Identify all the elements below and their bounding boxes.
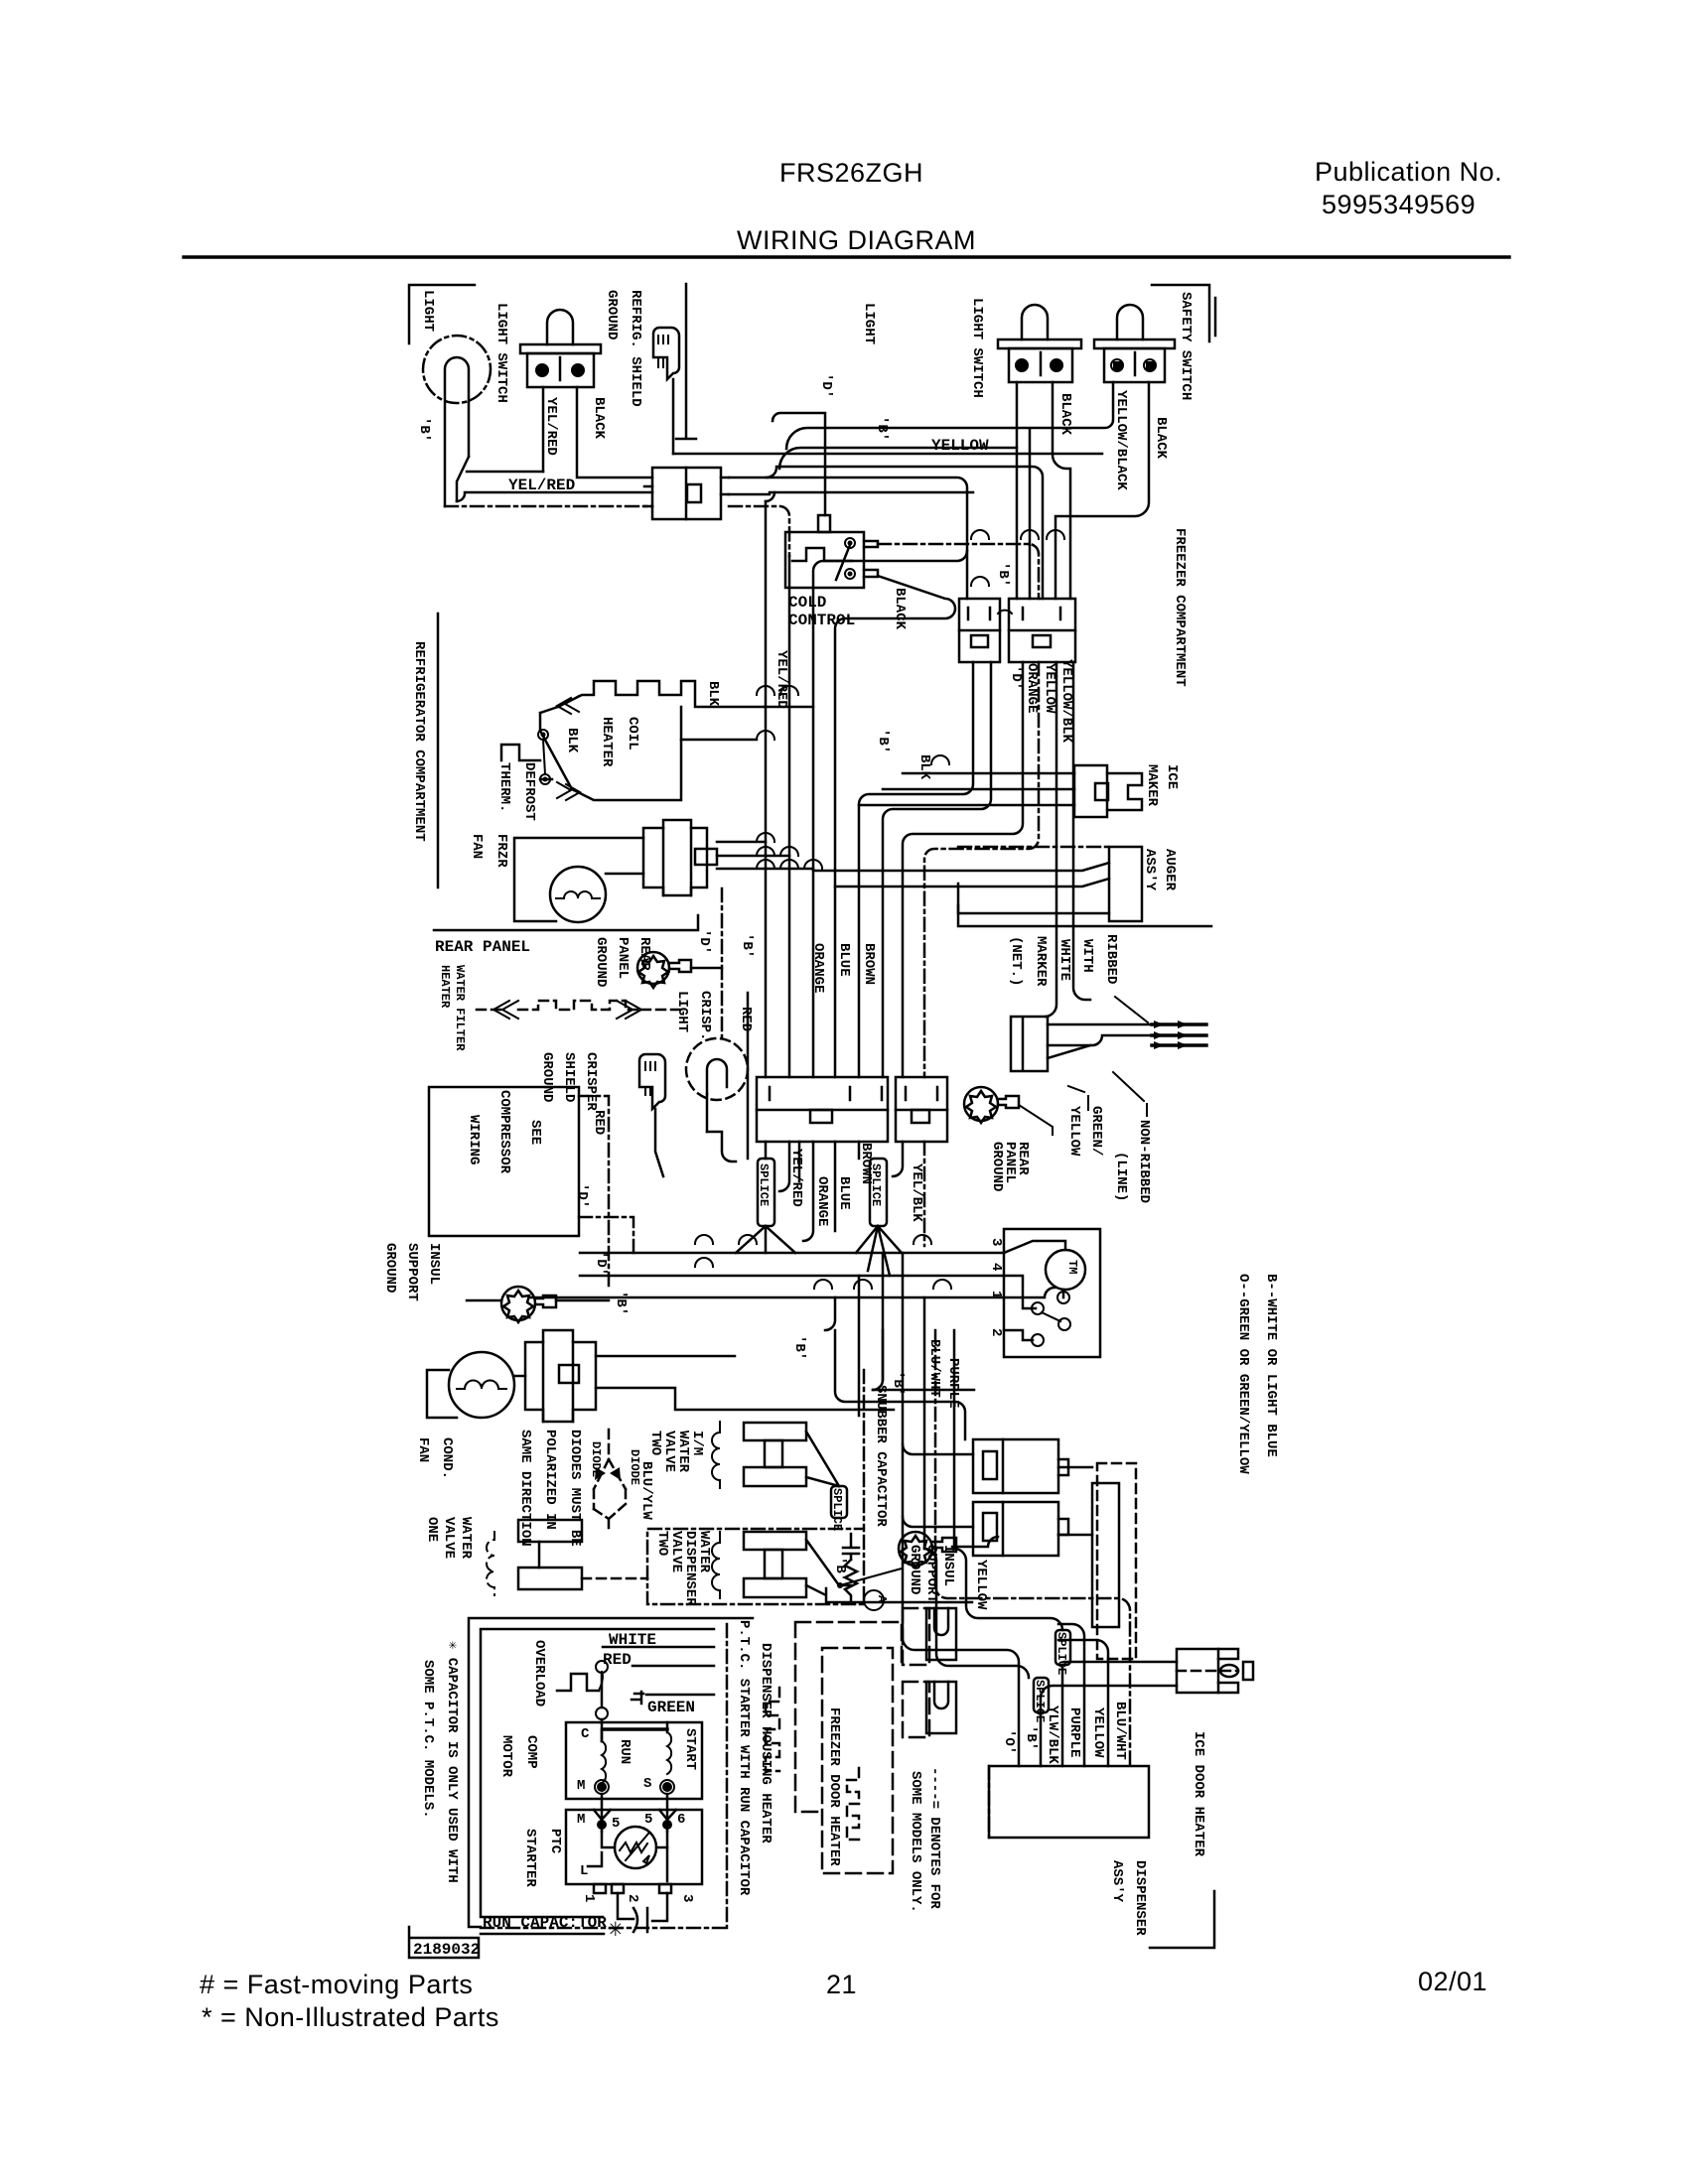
svg-text:FRS26ZGH: FRS26ZGH [779, 158, 923, 188]
coil heater element [558, 681, 765, 707]
svg-text:TWO: TWO [654, 1531, 670, 1556]
rear panel separator [434, 915, 698, 930]
svg-text:WITH: WITH [1079, 939, 1095, 973]
svg-text:'B': 'B' [1023, 1725, 1039, 1750]
svg-text:DIODES MUST BE: DIODES MUST BE [567, 1430, 583, 1547]
refrig shield ground clip [653, 328, 679, 379]
auger wires [958, 846, 1109, 849]
contact triangles [594, 1810, 611, 1820]
defrost thermostat [501, 745, 540, 760]
wire yellow [779, 448, 1017, 469]
svg-text:SEE: SEE [527, 1120, 543, 1145]
svg-text:2189032: 2189032 [413, 1941, 480, 1959]
ribbed leader [1115, 997, 1148, 1023]
svg-text:RUN: RUN [617, 1739, 633, 1764]
insul support ground right washer [899, 1532, 932, 1566]
compressor wiring reference box [429, 1087, 579, 1236]
K1 to splice wires [736, 1142, 795, 1253]
cold control box [785, 532, 864, 588]
node D dashed vertical [721, 888, 724, 1040]
dispenser housing heater element [766, 1688, 779, 1771]
main wire bundle verticals [765, 501, 768, 1077]
compressor section outer box [469, 1618, 753, 1927]
wire node B dash-dot [445, 506, 789, 556]
node D wire [773, 413, 825, 515]
cold control wires [878, 544, 1039, 599]
svg-text:DISPENSER: DISPENSER [1132, 1860, 1148, 1936]
freezer fan motor [550, 867, 606, 922]
svg-text:'D': 'D' [574, 1183, 590, 1208]
part number box 2189032 [409, 1927, 479, 1958]
svg-text:DISPENSER HOUSING HEATER: DISPENSER HOUSING HEATER [758, 1643, 774, 1843]
power cord connector [1011, 1017, 1048, 1071]
svg-text:POLARIZED IN: POLARIZED IN [542, 1430, 558, 1530]
power cord lines [1048, 1024, 1152, 1045]
svg-text:'B': 'B' [739, 933, 755, 958]
tall dashed connector M1 [1097, 1463, 1136, 1659]
crisper shield ground clip [639, 1054, 665, 1109]
label A circled [864, 1590, 884, 1610]
red bus vertical [747, 993, 750, 1159]
cond fan connector wires [596, 1356, 894, 1410]
IM water valve two body [744, 1423, 806, 1440]
wire hops near connectors [971, 530, 1064, 614]
rear panel ground washer right [964, 1087, 998, 1121]
corner bracket refrigerator light [409, 285, 475, 343]
some-models connector dashed outlines [903, 1608, 929, 1737]
green/yellow leader [1068, 1086, 1088, 1110]
ice door heater connector [1041, 1662, 1177, 1712]
svg-text:BLACK: BLACK [1057, 393, 1073, 436]
svg-text:B--WHITE OR LIGHT BLUE: B--WHITE OR LIGHT BLUE [1263, 1274, 1279, 1457]
svg-text:2: 2 [625, 1894, 640, 1902]
timer box [1004, 1229, 1100, 1357]
svg-text:YELLOW: YELLOW [1042, 663, 1057, 714]
rear panel ground washer left [637, 952, 669, 984]
svg-text:YELLOW: YELLOW [973, 1560, 989, 1610]
svg-text:S: S [643, 1776, 651, 1792]
svg-text:SAFETY SWITCH: SAFETY SWITCH [1178, 292, 1194, 400]
dispenser valve two body [744, 1532, 806, 1550]
svg-text:5: 5 [612, 1816, 620, 1832]
svg-text:ORANGE: ORANGE [1024, 663, 1040, 713]
svg-text:ASS'Y: ASS'Y [1109, 1860, 1125, 1903]
svg-text:BLU/YLW: BLU/YLW [638, 1461, 654, 1520]
svg-text:BROWN: BROWN [861, 943, 877, 985]
timer motor TM [1046, 1250, 1085, 1290]
svg-text:1: 1 [581, 1894, 597, 1902]
svg-text:SNUBBER CAPACITOR: SNUBBER CAPACITOR [873, 1385, 889, 1527]
svg-text:COLD: COLD [788, 594, 826, 612]
svg-text:DIODE: DIODE [589, 1441, 603, 1477]
bundle boundary wire [826, 1588, 972, 1602]
svg-text:'B': 'B' [875, 729, 891, 753]
svg-text:BLK: BLK [705, 681, 721, 707]
svg-text:ORANGE: ORANGE [814, 1176, 830, 1226]
svg-text:BLACK: BLACK [591, 397, 607, 440]
diode pair dashed [594, 1430, 626, 1509]
svg-text:6: 6 [677, 1812, 685, 1828]
wires down to valves [825, 1253, 883, 1416]
svg-text:YELLOW: YELLOW [1066, 1106, 1082, 1157]
svg-text:SOME P.T.C. MODELS.: SOME P.T.C. MODELS. [420, 1660, 436, 1819]
dispenser housing heater dashed box [795, 1622, 902, 1812]
refrig ground stub [676, 284, 696, 439]
svg-text:START: START [682, 1728, 698, 1770]
refrigerator compartment boundary [437, 614, 440, 887]
dispenser assy bracket [1150, 1891, 1214, 1948]
svg-text:ORANGE: ORANGE [810, 943, 826, 993]
svg-text:'B': 'B' [791, 1335, 807, 1360]
svg-text:RED: RED [591, 1110, 607, 1135]
svg-text:----= DENOTES FOR: ----= DENOTES FOR [926, 1767, 942, 1909]
svg-text:RUN CAPAC:TOR: RUN CAPAC:TOR [483, 1914, 607, 1932]
svg-text:LIGHT: LIGHT [861, 303, 877, 344]
bus horizontals to timer [580, 1252, 1004, 1255]
svg-text:REAR PANEL: REAR PANEL [435, 938, 530, 956]
ice maker connector [1074, 765, 1142, 817]
non-ribbed leader [1113, 1072, 1147, 1116]
svg-text:'B': 'B' [890, 1371, 906, 1396]
svg-text:O--GREEN OR GREEN/YELLOW: O--GREEN OR GREEN/YELLOW [1235, 1274, 1251, 1474]
net separator line [958, 905, 1211, 926]
svg-text:FREEZER COMPARTMENT: FREEZER COMPARTMENT [1172, 528, 1188, 687]
svg-text:P.T.C. STARTER WITH RUN CAPACI: P.T.C. STARTER WITH RUN CAPACITOR [736, 1620, 752, 1896]
insul support ground washer left [467, 1299, 501, 1302]
J1 output wires [859, 662, 973, 1077]
red wire [633, 1665, 714, 1668]
svg-text:WIRING DIAGRAM: WIRING DIAGRAM [737, 225, 976, 255]
svg-text:GREEN/: GREEN/ [1088, 1106, 1104, 1156]
crisper light wire down [707, 1132, 736, 1161]
water filter heater dashed element [493, 1001, 518, 1019]
svg-text:BLUE: BLUE [836, 943, 852, 977]
ptc starter box [566, 1810, 702, 1884]
svg-text:LIGHT SWITCH: LIGHT SWITCH [969, 298, 985, 398]
svg-text:YEL/RED: YEL/RED [788, 1149, 804, 1207]
svg-text:YELLOW/BLACK: YELLOW/BLACK [1113, 390, 1129, 490]
svg-text:4: 4 [988, 1263, 1004, 1271]
svg-text:YELLOW: YELLOW [931, 437, 989, 455]
svg-text:SPLICE: SPLICE [757, 1163, 771, 1206]
splice S2 [870, 1159, 887, 1226]
crisper light bulb [686, 1038, 748, 1100]
wire B top [786, 382, 1113, 599]
svg-text:ICE: ICE [1164, 764, 1180, 789]
svg-text:(LINE): (LINE) [1113, 1152, 1129, 1201]
svg-text:YELLOW/BLK: YELLOW/BLK [1058, 659, 1074, 744]
svg-text:M: M [577, 1812, 585, 1828]
svg-text:BROWN: BROWN [858, 1143, 874, 1184]
compressor D wire dashed [579, 1217, 633, 1253]
run winding [602, 1741, 606, 1783]
svg-text:YEL/RED: YEL/RED [508, 477, 575, 494]
svg-text:1: 1 [988, 1291, 1004, 1298]
heading rule [184, 255, 1509, 258]
svg-text:5: 5 [644, 1812, 652, 1828]
splice S3 [831, 1486, 847, 1518]
svg-text:'B': 'B' [832, 1557, 848, 1581]
svg-text:SAME DIRECTION: SAME DIRECTION [517, 1430, 533, 1547]
svg-text:02/01: 02/01 [1418, 1967, 1487, 1996]
svg-text:REFRIGERATOR COMPARTMENT: REFRIGERATOR COMPARTMENT [411, 641, 427, 842]
switch1 legs [542, 387, 545, 472]
svg-text:YLW/BLK: YLW/BLK [1045, 1706, 1060, 1764]
auger connector [1109, 847, 1142, 921]
connector C1 [652, 468, 721, 519]
wire shield ground to bus [673, 453, 1102, 456]
svg-text:'D': 'D' [696, 929, 712, 954]
cond fan connector [525, 1330, 596, 1422]
wires into big connectors [835, 1330, 974, 1439]
svg-text:'O': 'O' [1001, 1729, 1017, 1754]
svg-text:CONTROL: CONTROL [788, 612, 855, 629]
svg-text:'D': 'D' [1008, 665, 1024, 690]
freezer door heater element [847, 1768, 859, 1840]
svg-text:5995349569: 5995349569 [1322, 190, 1476, 219]
start winding [666, 1722, 669, 1732]
svg-text:COMPRESSOR: COMPRESSOR [496, 1090, 512, 1174]
svg-text:BLK: BLK [564, 728, 580, 753]
ptc resistor [615, 1827, 656, 1868]
svg-text:2: 2 [988, 1328, 1004, 1336]
svg-text:PURPLE: PURPLE [1066, 1707, 1082, 1757]
compressor section inner box [481, 1629, 714, 1917]
svg-text:BLU/WHT: BLU/WHT [1112, 1702, 1128, 1760]
coil heater arrows [557, 696, 580, 800]
svg-text:'B': 'B' [995, 562, 1011, 587]
small connector N2 [926, 1682, 956, 1733]
starter pins [594, 1884, 606, 1893]
svg-text:WHITE: WHITE [1056, 939, 1072, 981]
svg-text:BLACK: BLACK [892, 588, 908, 630]
svg-text:BLACK: BLACK [1153, 417, 1169, 460]
svg-text:RED: RED [738, 1007, 754, 1031]
white wire [603, 1646, 714, 1649]
branch coil heater to bundle [540, 707, 813, 779]
bundle hops [757, 686, 822, 869]
timer internals [1004, 1241, 1065, 1253]
small connector N1 [926, 1608, 956, 1660]
splice S4 [1055, 1630, 1070, 1665]
svg-text:# = Fast-moving Parts: # = Fast-moving Parts [200, 1970, 473, 1999]
svg-text:(NET.): (NET.) [1008, 936, 1024, 986]
safety switch body [1117, 305, 1143, 340]
cond fan motor [449, 1352, 514, 1418]
svg-text:AUGER: AUGER [1162, 849, 1178, 891]
wire yel/red to connector [457, 492, 652, 501]
svg-text:YELLOW: YELLOW [1090, 1707, 1106, 1758]
svg-text:* = Non-Illustrated Parts: * = Non-Illustrated Parts [202, 2002, 499, 2032]
run capacitor [618, 1893, 667, 1921]
wires into lower splices [954, 1549, 1062, 1630]
svg-text:ASS'Y: ASS'Y [1142, 849, 1158, 891]
svg-text:Publication No.: Publication No. [1315, 157, 1502, 187]
svg-text:FREEZER DOOR HEATER: FREEZER DOOR HEATER [826, 1707, 842, 1866]
water valve one dashed coil [487, 1532, 494, 1595]
snubber capacitor element [843, 1534, 859, 1601]
dispenser valve two coil [712, 1532, 720, 1598]
connector K1 [757, 1077, 888, 1142]
freezer fan connector [643, 820, 707, 895]
svg-text:✳ CAPACITOR IS ONLY USED WITH: ✳ CAPACITOR IS ONLY USED WITH [444, 1641, 460, 1883]
refrigerator light bulb [423, 336, 491, 403]
safety switch legs [1055, 382, 1149, 599]
svg-text:BLK: BLK [916, 754, 932, 780]
svg-text:MARKER: MARKER [1033, 936, 1049, 987]
svg-text:NON-RIBBED: NON-RIBBED [1136, 1120, 1152, 1203]
connector J1 below switches [959, 599, 1000, 662]
wires into ice door heater [1041, 1665, 1062, 1766]
ice door heater box [989, 1766, 1149, 1838]
big connector L2 [973, 1502, 1058, 1556]
light switch 1 body [547, 310, 573, 344]
comp motor box [566, 1722, 702, 1799]
connector K2 [896, 1077, 947, 1142]
svg-text:YEL/RED: YEL/RED [774, 650, 789, 709]
svg-text:MAKER: MAKER [1144, 764, 1160, 807]
svg-text:LIGHT SWITCH: LIGHT SWITCH [493, 303, 509, 403]
svg-text:RIBBED: RIBBED [1103, 934, 1119, 984]
svg-text:TM: TM [1065, 1260, 1079, 1274]
fan connector wires right [717, 842, 813, 869]
connector J2 below switches [1009, 599, 1075, 662]
ice maker wires [859, 773, 1074, 805]
compressor red wire [579, 1096, 609, 1291]
svg-text:TWO: TWO [647, 1431, 663, 1455]
svg-text:'B': 'B' [613, 1291, 629, 1315]
IM water valve two coil [712, 1422, 720, 1488]
svg-text:3: 3 [988, 1238, 1004, 1246]
splice S5 [1034, 1678, 1049, 1712]
svg-text:'B': 'B' [416, 417, 432, 442]
svg-text:WIRING: WIRING [466, 1115, 482, 1164]
freezer door heater dashed box [822, 1648, 893, 1873]
snubber dashed boundary [647, 1370, 864, 1604]
overload element [557, 1674, 599, 1691]
svg-text:BLUE: BLUE [836, 1176, 852, 1210]
big connector L1 [973, 1439, 1058, 1493]
water valve one body [518, 1520, 582, 1542]
motor to starter wires [602, 1794, 667, 1832]
svg-text:ICE DOOR HEATER: ICE DOOR HEATER [1191, 1731, 1206, 1857]
ground symbol green [632, 1692, 714, 1704]
svg-text:✳: ✳ [608, 1914, 624, 1944]
J2 output wires [903, 662, 1023, 1077]
wires C1 to right [729, 478, 967, 599]
svg-text:3: 3 [679, 1894, 695, 1902]
svg-text:C: C [581, 1726, 590, 1742]
svg-text:LIGHT: LIGHT [420, 290, 436, 332]
svg-text:SPLICE: SPLICE [830, 1488, 844, 1531]
svg-text:'D': 'D' [593, 1251, 609, 1276]
power cord prongs [1152, 1024, 1206, 1045]
svg-text:21: 21 [826, 1970, 857, 1999]
svg-text:SOME MODELS ONLY.: SOME MODELS ONLY. [908, 1771, 923, 1913]
safety switch bracket [1152, 285, 1215, 341]
svg-text:OVERLOAD: OVERLOAD [531, 1640, 547, 1706]
svg-text:YEL/BLK: YEL/BLK [909, 1163, 924, 1222]
start top wire [604, 1727, 667, 1730]
svg-text:'D': 'D' [818, 373, 834, 398]
light switch 2 body [1022, 305, 1048, 340]
switch2 legs [1016, 382, 1019, 599]
splice S1 [758, 1159, 774, 1226]
svg-text:YEL/RED: YEL/RED [543, 397, 559, 456]
svg-text:M: M [577, 1778, 585, 1794]
wire bulb to switch [467, 471, 543, 474]
svg-text:GREEN: GREEN [647, 1699, 695, 1716]
